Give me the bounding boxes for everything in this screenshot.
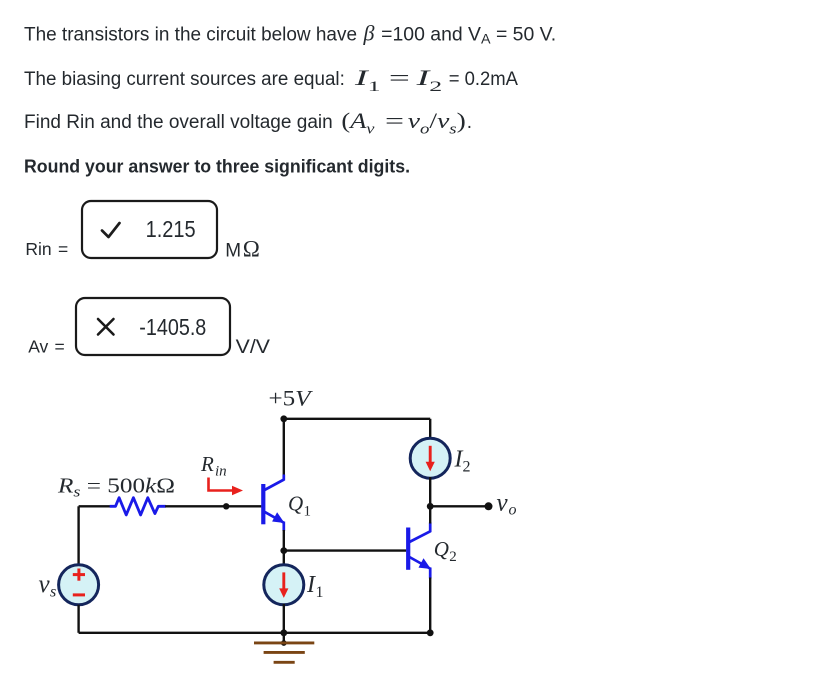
wire top rail xyxy=(284,418,430,420)
arrow Rin (red) xyxy=(209,478,234,491)
svg-text:1: 1 xyxy=(304,504,312,520)
wire input right segment xyxy=(165,505,261,507)
transistor Q1 xyxy=(263,475,284,532)
svg-text:vo/vs): vo/vs) xyxy=(408,108,466,138)
wire Q2 emitter down xyxy=(429,578,431,633)
checkmark correct xyxy=(102,223,120,237)
voltage source vs xyxy=(59,565,99,605)
svg-text:(Av: (Av xyxy=(341,108,374,138)
wire I2 bottom to vo node xyxy=(429,477,431,506)
node Q1 emitter junction xyxy=(280,547,287,554)
svg-text:β: β xyxy=(363,21,375,46)
svg-text:R: R xyxy=(200,452,214,476)
wire source left vertical top xyxy=(77,506,79,565)
svg-text:M: M xyxy=(225,241,241,262)
wire input left segment xyxy=(79,505,111,507)
svg-text:.: . xyxy=(467,112,472,133)
svg-text:=100 and VA = 50 V.: =100 and VA = 50 V. xyxy=(381,25,556,47)
ground xyxy=(283,633,285,643)
svg-text:=: = xyxy=(58,239,68,259)
wire Q2 base xyxy=(284,549,406,551)
svg-text:o: o xyxy=(509,502,517,519)
wire Q1 node to I1 xyxy=(283,551,285,566)
current source I2 xyxy=(410,438,450,478)
wire I1 bottom xyxy=(283,604,285,633)
svg-text:v: v xyxy=(39,571,51,598)
svg-text:s: s xyxy=(50,584,56,601)
transistor Q2 xyxy=(408,523,430,579)
wire source left vertical bottom xyxy=(77,605,79,633)
answer box Av xyxy=(76,298,230,355)
svg-text:Find Rin and the overall volta: Find Rin and the overall voltage gain xyxy=(24,112,333,133)
svg-text:Q: Q xyxy=(288,491,303,515)
wire bottom rail xyxy=(79,632,431,634)
svg-text:v: v xyxy=(497,490,509,517)
svg-text:Rs = 500kΩ: Rs = 500kΩ xyxy=(57,474,175,501)
svg-text:= 0.2mA: = 0.2mA xyxy=(449,69,519,90)
svg-text:Av: Av xyxy=(28,337,48,357)
node vo terminal xyxy=(485,502,493,510)
node bottom I1 junction xyxy=(280,629,287,636)
svg-text:=: = xyxy=(389,65,410,90)
node input junction xyxy=(223,503,229,509)
node bottom right junction xyxy=(427,629,434,636)
svg-text:The biasing current sources ar: The biasing current sources are equal: xyxy=(24,69,345,90)
svg-text:Rin: Rin xyxy=(25,239,51,259)
node vo junction xyxy=(427,503,434,510)
node top-left junction xyxy=(280,415,287,422)
svg-text:=: = xyxy=(55,337,65,357)
svg-text:+5V: +5V xyxy=(269,386,314,411)
svg-text:Q: Q xyxy=(434,537,449,561)
svg-text:The transistors in the circuit: The transistors in the circuit below hav… xyxy=(24,25,357,46)
wire Q1 collector vertical xyxy=(283,419,285,476)
wire I2 top vertical xyxy=(429,419,431,440)
svg-text:V/V: V/V xyxy=(236,337,271,358)
svg-text:in: in xyxy=(215,464,227,480)
svg-text:2: 2 xyxy=(463,459,471,476)
wire Q2 collector to vo node xyxy=(429,506,431,523)
svg-text:I: I xyxy=(306,572,316,598)
current source I1 xyxy=(264,565,304,605)
svg-text:1: 1 xyxy=(316,584,324,601)
svg-text:Round your answer to three sig: Round your answer to three significant d… xyxy=(24,157,410,177)
wire vo output xyxy=(430,505,488,507)
svg-text:1.215: 1.215 xyxy=(146,216,196,242)
svg-text:=: = xyxy=(385,108,404,133)
wire Q1 emitter to node xyxy=(283,530,285,551)
svg-text:Ω: Ω xyxy=(243,237,260,262)
svg-text:I1: I1 xyxy=(353,65,380,95)
answer box Rin xyxy=(82,201,217,258)
cross incorrect xyxy=(98,319,114,335)
svg-text:I2: I2 xyxy=(415,65,442,95)
svg-text:2: 2 xyxy=(449,549,457,565)
resistor Rs xyxy=(110,498,166,515)
svg-text:-1405.8: -1405.8 xyxy=(139,314,206,340)
